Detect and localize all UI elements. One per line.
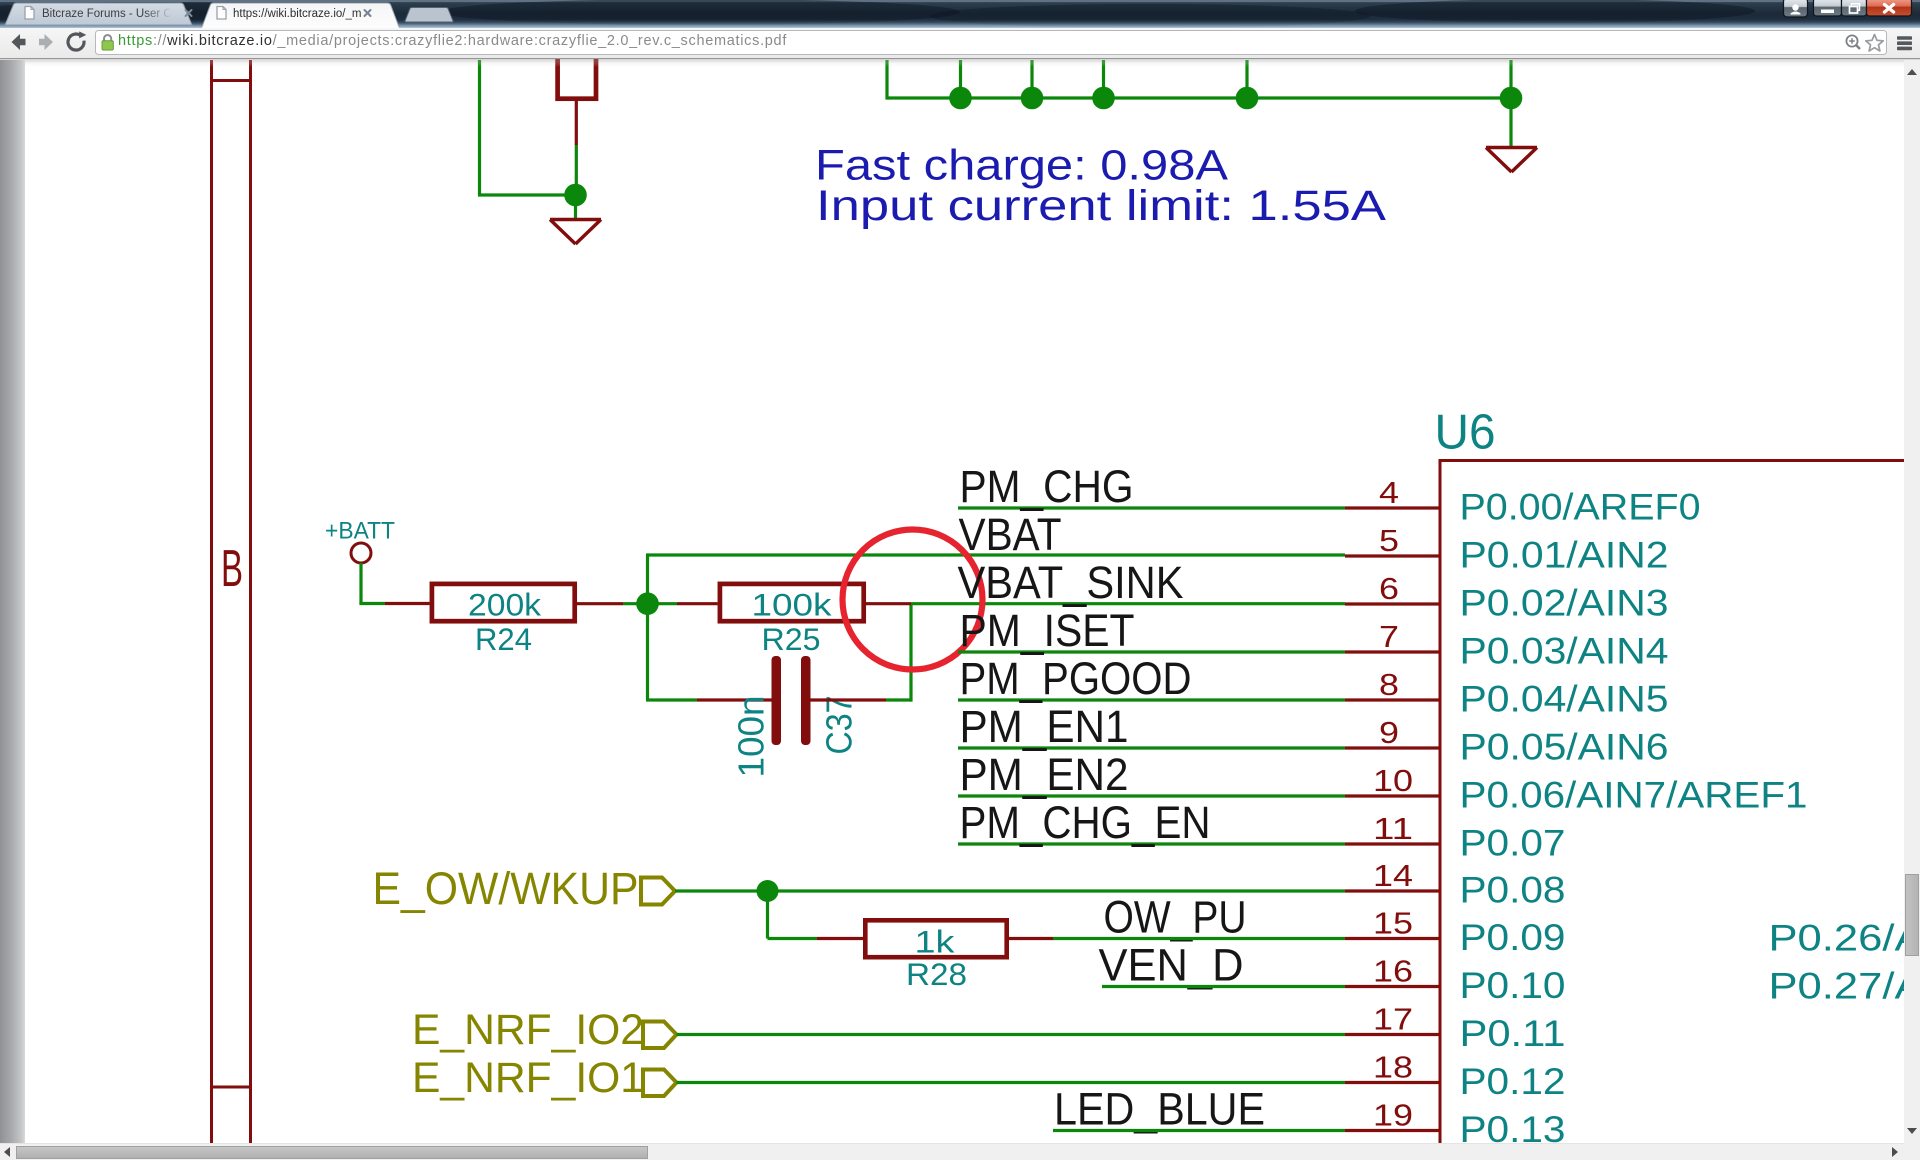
wire green C37 to riser	[886, 698, 911, 701]
svg-text:PM_PGOOD: PM_PGOOD	[960, 653, 1192, 704]
hierarchical label arrow E_NRF_IO2	[643, 1022, 677, 1049]
wire E_NRF_IO1 to pin 18	[677, 1081, 1346, 1084]
svg-text:LED_BLUE: LED_BLUE	[1054, 1084, 1265, 1135]
pin number 16	[1373, 954, 1413, 989]
svg-text:P0.26/A: P0.26/A	[1769, 918, 1920, 959]
net label LED_BLUE	[1054, 1084, 1265, 1135]
wire stub up at node 1	[959, 60, 962, 98]
pdf viewer grey left edge	[0, 60, 25, 1143]
pin name P0.26 (clipped right)	[1769, 918, 1920, 959]
svg-text:VBAT_SINK: VBAT_SINK	[958, 557, 1184, 608]
C37 value 100n (rotated)	[731, 696, 772, 778]
svg-text:P0.06/AIN7/AREF1: P0.06/AIN7/AREF1	[1460, 775, 1808, 816]
svg-text:P0.12: P0.12	[1460, 1061, 1566, 1102]
svg-text:P0.02/AIN3: P0.02/AIN3	[1460, 583, 1669, 624]
reload icon	[68, 31, 86, 50]
net label PM_CHG_EN	[960, 797, 1211, 848]
wire dark red into R25	[677, 602, 718, 605]
pin name P0.09	[1460, 917, 1566, 958]
wire PM_ISET to pin 7	[958, 650, 1345, 653]
star bookmark icon	[1866, 35, 1883, 52]
pin 8 stub	[1345, 698, 1439, 701]
pin number 9	[1379, 715, 1399, 750]
wire dark red out of R28	[1007, 937, 1053, 940]
pin 15 stub	[1345, 937, 1439, 940]
pin name P0.08	[1460, 870, 1566, 911]
active tab	[202, 3, 399, 28]
vertical scrollbar	[1904, 60, 1920, 1143]
favicon tab1	[25, 7, 34, 20]
R28 value 1k	[915, 924, 955, 960]
ground symbol top-left	[550, 220, 601, 245]
svg-text:C37: C37	[819, 696, 860, 755]
pin 17 stub	[1345, 1033, 1439, 1036]
svg-text:19: 19	[1373, 1098, 1413, 1133]
svg-text:P0.00/AREF0: P0.00/AREF0	[1460, 487, 1701, 528]
inactive tab	[5, 3, 192, 25]
svg-text:11: 11	[1373, 811, 1413, 846]
wire dark red R24 to node	[577, 602, 623, 605]
pin 4 stub	[1345, 506, 1439, 509]
wire dark red into R28	[817, 937, 863, 940]
window button: close	[1867, 0, 1912, 16]
svg-text:18: 18	[1373, 1050, 1413, 1085]
window button: restore	[1842, 0, 1867, 16]
wire green VBAT to pin 5	[646, 553, 1345, 556]
pin stub dark red below top resistor	[575, 101, 578, 145]
svg-text:VBAT: VBAT	[959, 509, 1062, 560]
pin number 17	[1373, 1002, 1413, 1037]
svg-text:P0.11: P0.11	[1460, 1013, 1566, 1054]
net label VBAT_SINK	[958, 557, 1184, 608]
sheet border tick bottom	[211, 1086, 251, 1089]
pin name P0.03/AIN4	[1460, 631, 1669, 672]
pin name P0.00/AREF0	[1460, 487, 1701, 528]
pin 10 stub	[1345, 794, 1439, 797]
svg-text:Input current limit: 1.55A: Input current limit: 1.55A	[816, 182, 1386, 230]
sheet border frame left line inner	[249, 60, 252, 1143]
hierarchical label E_OW/WKUP	[373, 863, 639, 914]
pin number 11	[1373, 811, 1413, 846]
wire dark red R25 to pin6 net	[866, 602, 911, 605]
pin number 7	[1379, 619, 1399, 654]
wire green to pin 6	[911, 602, 1345, 605]
wire green junction to ground	[574, 195, 577, 219]
svg-text:9: 9	[1379, 715, 1399, 750]
IC U6 body outline (left and top edges)	[1439, 460, 1920, 1160]
svg-text:R28: R28	[906, 956, 967, 992]
wire OW_PU to pin 15	[1053, 937, 1345, 940]
wire PM_PGOOD to pin 8	[958, 698, 1345, 701]
svg-text:PM_ISET: PM_ISET	[960, 605, 1135, 656]
wire E_OW/WKUP to pin 14	[675, 889, 1345, 892]
wire stub up at node 3	[1102, 60, 1105, 98]
pin number 4	[1379, 475, 1399, 510]
pin 9 stub	[1345, 746, 1439, 749]
svg-text:15: 15	[1373, 906, 1413, 941]
forward arrow (disabled)	[39, 34, 53, 50]
omnibox	[96, 31, 1887, 55]
junction dot bus 3	[1092, 87, 1115, 110]
pin name P0.04/AIN5	[1460, 679, 1669, 720]
capacitor C37 right plate	[801, 656, 811, 745]
R24 reference	[475, 621, 532, 657]
svg-text:16: 16	[1373, 954, 1413, 989]
power flag +BATT circle	[351, 543, 371, 563]
junction dot node A	[636, 592, 659, 615]
net label PM_PGOOD	[960, 653, 1192, 704]
svg-text:100n: 100n	[731, 696, 772, 778]
note text: Fast charge	[815, 142, 1228, 190]
wire green top bus horizontal	[887, 96, 1511, 99]
wire PM_CHG_EN to pin 11	[958, 842, 1345, 845]
junction dot E_OW node	[757, 880, 779, 902]
svg-text:VEN_D: VEN_D	[1099, 940, 1244, 991]
new tab button	[405, 8, 453, 23]
wire green +BATT corner right	[359, 602, 385, 605]
resistor R28 body	[865, 920, 1006, 957]
svg-text:R24: R24	[475, 621, 532, 657]
net label PM_EN2	[960, 749, 1129, 800]
tab2 close x	[365, 10, 371, 16]
junction dot top-left	[564, 184, 587, 207]
wire stub up at node 2	[1030, 60, 1033, 98]
wire E_NRF_IO2 to pin 17	[677, 1033, 1346, 1036]
wire stub up at node 4	[1245, 60, 1248, 98]
pin name P0.02/AIN3	[1460, 583, 1669, 624]
svg-text:P0.08: P0.08	[1460, 870, 1566, 911]
R25 reference	[762, 621, 821, 657]
sheet border tick top	[211, 79, 251, 82]
svg-text:PM_EN2: PM_EN2	[960, 749, 1129, 800]
pin name P0.13	[1460, 1109, 1566, 1150]
svg-text:100k: 100k	[752, 587, 832, 623]
svg-text:200k: 200k	[468, 587, 541, 623]
page top shadow	[0, 59, 1920, 67]
svg-text:R25: R25	[762, 621, 821, 657]
power flag +BATT label	[325, 518, 395, 545]
svg-text:P0.07: P0.07	[1460, 823, 1566, 864]
wire green into node A	[623, 602, 648, 605]
wire green resistor to junction	[575, 145, 578, 196]
horizontal scrollbar	[0, 1143, 1904, 1160]
pin 5 stub	[1345, 554, 1439, 557]
pin number 5	[1379, 523, 1399, 558]
pin number 19	[1373, 1098, 1413, 1133]
back arrow	[12, 34, 26, 50]
svg-text:14: 14	[1373, 858, 1413, 893]
hierarchical label arrow E_NRF_IO1	[643, 1070, 677, 1097]
svg-text:PM_CHG: PM_CHG	[960, 461, 1134, 512]
window button: minimize	[1814, 0, 1842, 16]
svg-text:OW_PU: OW_PU	[1104, 892, 1247, 943]
pin number 6	[1379, 571, 1399, 606]
svg-text:B: B	[221, 540, 243, 598]
wire green riser up to pin6 net	[909, 604, 912, 702]
pin name P0.11	[1460, 1013, 1566, 1054]
svg-text:10: 10	[1373, 763, 1413, 798]
wire VEN_D to pin 16	[1102, 985, 1345, 988]
svg-text:P0.27/A: P0.27/A	[1769, 966, 1920, 1007]
svg-text:1k: 1k	[915, 924, 955, 960]
pin name P0.10	[1460, 965, 1566, 1006]
pin 14 stub	[1345, 889, 1439, 892]
junction dot bus 5	[1500, 87, 1523, 110]
svg-text:4: 4	[1379, 475, 1399, 510]
tab1 close x	[186, 10, 192, 16]
pin 19 stub	[1345, 1129, 1439, 1132]
menu hamburger icon	[1897, 36, 1912, 50]
wire green node A to R25	[648, 602, 678, 605]
pin name P0.05/AIN6	[1460, 727, 1669, 768]
hierarchical label E_NRF_IO2	[412, 1007, 644, 1054]
svg-text:E_OW/WKUP: E_OW/WKUP	[373, 863, 639, 914]
wire green vertical top-left	[478, 60, 481, 195]
svg-text:17: 17	[1373, 1002, 1413, 1037]
resistor R25 body	[720, 584, 864, 621]
svg-text:7: 7	[1379, 619, 1399, 654]
padlock	[102, 35, 113, 50]
svg-text:P0.04/AIN5: P0.04/AIN5	[1460, 679, 1669, 720]
svg-text:6: 6	[1379, 571, 1399, 606]
hierarchical label arrow E_OW/WKUP	[641, 878, 675, 905]
net label PM_EN1	[960, 701, 1129, 752]
svg-text:P0.03/AIN4: P0.03/AIN4	[1460, 631, 1669, 672]
wire green bottom of C37 left	[646, 698, 697, 701]
net label OW_PU	[1104, 892, 1247, 943]
pin name P0.27 (clipped right)	[1769, 966, 1920, 1007]
pin 18 stub	[1345, 1081, 1439, 1084]
wire PM_EN1 to pin 9	[958, 746, 1345, 749]
junction dot bus 1	[949, 87, 972, 110]
junction dot bus 2	[1021, 87, 1044, 110]
wire green from +BATT down	[359, 563, 362, 604]
wire PM_EN2 to pin 10	[958, 794, 1345, 797]
net label VBAT	[959, 509, 1062, 560]
wire green corner to junction	[478, 193, 576, 196]
svg-text:PM_EN1: PM_EN1	[960, 701, 1129, 752]
svg-text:8: 8	[1379, 667, 1399, 702]
wire dark red from C37 right plate	[811, 698, 887, 701]
svg-text:P0.01/AIN2: P0.01/AIN2	[1460, 535, 1669, 576]
sheet zone label B	[221, 540, 243, 598]
wire dark red into R24	[385, 602, 430, 605]
wire LED_BLUE to pin 19	[1053, 1129, 1345, 1132]
resistor R24 body	[432, 584, 575, 621]
pin 16 stub	[1345, 985, 1439, 988]
C37 reference (rotated)	[819, 696, 860, 755]
pin number 10	[1373, 763, 1413, 798]
svg-text:E_NRF_IO1: E_NRF_IO1	[412, 1055, 644, 1102]
pin name P0.12	[1460, 1061, 1566, 1102]
pin name P0.07	[1460, 823, 1566, 864]
hierarchical label E_NRF_IO1	[412, 1055, 644, 1102]
svg-text:E_NRF_IO2: E_NRF_IO2	[412, 1007, 644, 1054]
svg-text:+BATT: +BATT	[325, 518, 395, 545]
wire green bus left corner stub up	[885, 60, 888, 100]
pin number 14	[1373, 858, 1413, 893]
net label VEN_D	[1099, 940, 1244, 991]
capacitor C37 left plate	[772, 656, 782, 745]
wire dark red to C37 left plate	[697, 698, 772, 701]
op IC U6 reference label	[1435, 406, 1496, 460]
wire stub up at node 5	[1509, 60, 1512, 98]
note text: Input current limit	[816, 182, 1386, 230]
window button: user	[1784, 0, 1808, 17]
favicon tab2	[217, 7, 226, 20]
wire green bus down to ground	[1509, 98, 1512, 147]
svg-text:U6: U6	[1435, 406, 1496, 460]
wire green node A down	[646, 604, 649, 700]
pin 6 stub	[1345, 602, 1439, 605]
pin number 8	[1379, 667, 1399, 702]
pin name P0.06/AIN7/AREF1	[1460, 775, 1808, 816]
R24 value 200k	[468, 587, 541, 623]
pin number 18	[1373, 1050, 1413, 1085]
svg-text:PM_CHG_EN: PM_CHG_EN	[960, 797, 1211, 848]
svg-text:P0.05/AIN6: P0.05/AIN6	[1460, 727, 1669, 768]
pin name P0.01/AIN2	[1460, 535, 1669, 576]
wire green E_OW node down	[766, 891, 769, 939]
pin 7 stub	[1345, 650, 1439, 653]
svg-text:5: 5	[1379, 523, 1399, 558]
svg-text:P0.10: P0.10	[1460, 965, 1566, 1006]
sheet border frame left line outer	[210, 60, 213, 1143]
R28 reference	[906, 956, 967, 992]
svg-text:P0.09: P0.09	[1460, 917, 1566, 958]
net label PM_CHG	[960, 461, 1134, 512]
wire green node A up	[646, 555, 649, 604]
junction dot bus 4	[1236, 87, 1259, 110]
pin number 15	[1373, 906, 1413, 941]
ground symbol top-right	[1486, 148, 1537, 173]
pin 11 stub	[1345, 842, 1439, 845]
net label PM_ISET	[960, 605, 1135, 656]
resistor top (partial, cut by toolbar)	[558, 20, 596, 99]
magnifier zoom icon	[1846, 35, 1860, 49]
wire green to R28	[768, 937, 818, 940]
R25 value 100k	[752, 587, 832, 623]
wire PM_CHG to pin 4	[958, 506, 1345, 509]
annotation red circle	[843, 530, 983, 670]
